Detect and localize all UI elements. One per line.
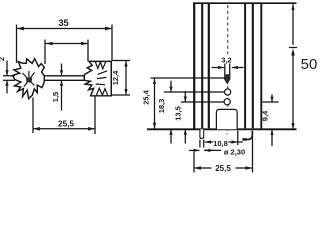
dimension 25,5 line [33, 128, 95, 130]
dimension 3,2 left arrow [212, 67, 225, 69]
fin line 3 [208, 4, 210, 128]
dimension 12,4 top arrow [124, 61, 127, 67]
inner dimension right extension line [87, 40, 89, 62]
dimension 25,5 (front view) left arrow [194, 166, 201, 170]
dimension 2 lower arrow [6, 81, 8, 94]
web bottom line [44, 79, 84, 81]
center line through slot [226, 110, 228, 135]
svg-text:9,4: 9,4 [260, 110, 269, 121]
svg-text:35: 35 [58, 18, 68, 28]
right fin cluster [84, 61, 111, 95]
extension line 18,3 (to upper circle) [164, 91, 225, 93]
bottom edge [147, 128, 297, 130]
center line (dash-dot) upper [227, 5, 229, 54]
svg-text:25,5: 25,5 [215, 164, 231, 173]
dimension 1,5 lower arrow and shaft [61, 81, 63, 111]
svg-text:25,5: 25,5 [58, 119, 74, 128]
inner dimension left extension line [44, 40, 46, 65]
dimension 50 top arrow [291, 4, 294, 10]
lower circle hole [224, 99, 230, 105]
fin line 6 (right edge) [260, 3, 262, 129]
dimension 25,5 right arrow [88, 127, 95, 131]
dimension 12,4 bottom extension line [112, 94, 130, 96]
extension line 13,5 (to lower circle) [181, 101, 224, 103]
dimension 18,3 line lower part [170, 130, 172, 144]
right cluster right edge [110, 61, 112, 95]
right cluster inner fin detail [95, 62, 107, 96]
fin line 1 (left edge) [193, 3, 195, 129]
dimension 9,4 lower arrow (outside, pointing up) [271, 130, 273, 146]
center line middle (hole to slot) [227, 86, 229, 108]
dimension o2,30 right arrow and leader [204, 149, 221, 151]
left fin cluster (jagged star cross-section) [13, 59, 45, 99]
upper circle hole [225, 89, 231, 95]
dimension 50 mid arrow (pointing up) [291, 48, 295, 55]
dimension 35 left extension line [16, 25, 18, 64]
dimension 35 left arrow [17, 27, 25, 31]
left cluster inner detail [23, 71, 35, 87]
dimension 25,4 top arrow [153, 78, 156, 84]
dimension 10,8 left arrow [205, 141, 213, 143]
dimension 12,4 top extension line [112, 60, 130, 62]
svg-text:2: 2 [0, 57, 6, 61]
dimension 25,4 line [154, 78, 156, 129]
svg-text:25,4: 25,4 [141, 89, 150, 104]
svg-text:1,5: 1,5 [51, 92, 60, 102]
dimension 12,4 line [125, 61, 127, 96]
extension line 25,4 (to hole center) [151, 77, 225, 79]
dimension 25,5 left arrow [33, 127, 40, 131]
inner dimension left arrow [46, 42, 53, 46]
hole hatched body [225, 74, 230, 80]
dimension 3,2 right arrow [232, 67, 244, 69]
dimension 50 line lower segment [292, 54, 294, 129]
bent solder lug (right) [244, 131, 253, 140]
left mounting pin [200, 129, 204, 138]
dimension 25,5 right extension line [94, 97, 96, 135]
left cluster center blob [26, 78, 32, 83]
dimension 50 bottom arrow [291, 123, 294, 129]
dimension 25,5 (front view) right extension line [252, 131, 254, 173]
dimension 12,4 bottom arrow [124, 89, 127, 95]
dimension 35 right arrow [105, 27, 113, 31]
fin line 4 [244, 4, 246, 128]
svg-text:3,2: 3,2 [221, 56, 232, 65]
svg-text:50: 50 [301, 56, 318, 73]
inner dimension right arrow [81, 42, 88, 46]
dimension 35 right extension line [111, 25, 113, 61]
bottom slot [216, 109, 237, 129]
dimension 10,8 right arrow [229, 141, 238, 143]
fin line 5 [252, 4, 254, 128]
inner unlabeled dimension line [46, 43, 89, 45]
web top line [44, 75, 84, 77]
dimension 1,5 upper arrow [61, 64, 63, 76]
dimension 50 line upper segment [292, 4, 294, 45]
svg-text:18,3: 18,3 [157, 99, 166, 114]
hole side walls [224, 64, 226, 80]
dimension 25,5 (front view) line [194, 167, 212, 169]
dimension 2 upper arrow [6, 61, 8, 76]
dimension 25,5 left extension line [32, 98, 34, 134]
fin line 2 [201, 4, 203, 128]
dimension 35 line [17, 28, 113, 30]
hole conical tip [224, 80, 230, 85]
dimension 13,5 line lower part [184, 130, 186, 144]
svg-text:13,5: 13,5 [173, 106, 182, 121]
dimension 10,8 right extension line (slot wall extended) [237, 131, 239, 146]
dimension 9,4 upper arrow (outside, pointing down) [271, 95, 273, 102]
top edge [193, 2, 297, 4]
svg-text:ø 2,30: ø 2,30 [224, 148, 245, 157]
dimension 13,5 line upper part [184, 91, 186, 102]
dimension 25,5 (front view) right arrow [246, 166, 253, 170]
dimension 25,5 (front view) left extension line [193, 152, 195, 173]
dimension 25,4 bottom arrow [153, 123, 156, 129]
dimension o2,30 left arrow [189, 149, 200, 151]
pin diameter ticks [199, 140, 201, 148]
dimension 50 mid tick [289, 47, 297, 49]
dimension 9,4 top extension line [263, 101, 279, 103]
dimension 18,3 line upper part [170, 81, 172, 92]
dimension 2 extension stubs [3, 75, 15, 77]
svg-text:12,4: 12,4 [111, 70, 120, 85]
